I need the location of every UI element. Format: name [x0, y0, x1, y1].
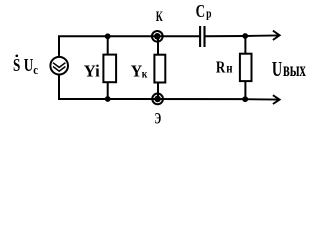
- wire top rail left segment (source corner to capacitor left plate): [59, 36, 199, 56]
- capacitor Cp plate left: [199, 26, 201, 47]
- output wire arrow top: [245, 34, 278, 37]
- node E center dot: [154, 96, 161, 103]
- node dot Yi bottom: [105, 96, 111, 102]
- svg-text:c: c: [33, 62, 38, 77]
- output wire arrow bottom: [245, 98, 278, 100]
- svg-text:Yi: Yi: [84, 62, 100, 81]
- svg-text:C: C: [196, 1, 206, 21]
- wire bottom rail (source corner to Rn junction): [59, 75, 245, 99]
- svg-text:Э: Э: [154, 110, 161, 127]
- svg-text:U: U: [272, 57, 282, 81]
- svg-text:к: к: [142, 66, 148, 80]
- node dot Rn top: [242, 33, 248, 39]
- svg-text:U: U: [24, 55, 34, 75]
- admittance Yi branch: [107, 36, 109, 54]
- admittance Yk branch: [157, 36, 159, 54]
- current source S*Uc: [50, 57, 68, 75]
- node E terminal ring: [152, 94, 163, 105]
- node K terminal ring: [152, 31, 163, 42]
- node dot Rn bottom: [242, 96, 248, 102]
- svg-text:Y: Y: [131, 62, 142, 81]
- svg-text:R: R: [216, 57, 226, 76]
- load Rn branch: [244, 36, 246, 54]
- svg-text:S: S: [13, 55, 20, 75]
- svg-text:К: К: [156, 9, 163, 25]
- svg-text:н: н: [226, 60, 232, 75]
- svg-text:вых: вых: [283, 59, 306, 81]
- capacitor Cp plate right: [203, 26, 205, 47]
- node K center dot: [154, 33, 161, 40]
- svg-text:р: р: [206, 6, 211, 21]
- node dot Yi top: [105, 33, 111, 39]
- wire top rail right segment (capacitor right plate to Rn junction): [206, 35, 246, 37]
